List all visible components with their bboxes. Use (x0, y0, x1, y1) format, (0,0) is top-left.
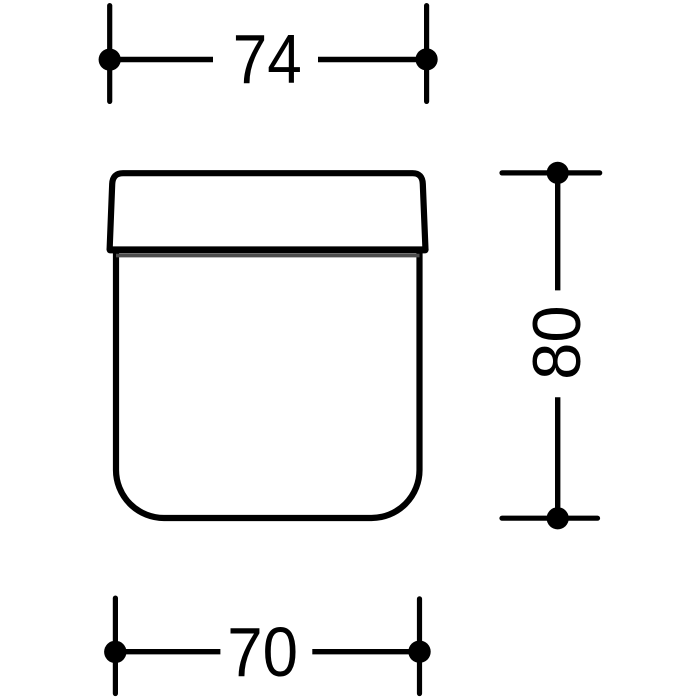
vessel collar outline (110, 173, 426, 250)
right dimension line upper segment (555, 173, 560, 291)
right dimension line lower segment (555, 397, 560, 518)
bottom dimension extension line right (417, 599, 422, 694)
top dimension extension line right (424, 6, 429, 102)
svg-text:74: 74 (233, 20, 302, 98)
bottom dimension extension line left (113, 598, 118, 693)
bottom dimension dot right (408, 641, 430, 663)
bottom dimension line left segment (115, 649, 220, 654)
right dimension dot top (547, 162, 569, 184)
vessel collar bottom edge (110, 246, 425, 253)
right dimension extension line bottom (502, 516, 598, 521)
vessel body outline (116, 249, 420, 518)
vessel lip line (116, 254, 420, 258)
bottom dimension dot left (104, 641, 126, 663)
bottom dimension line right segment (312, 649, 419, 654)
top dimension dot right (416, 48, 438, 70)
top dimension line right segment (318, 57, 427, 62)
top dimension line left segment (110, 57, 213, 62)
right dimension extension line top (502, 170, 600, 175)
top dimension extension line left (107, 6, 112, 102)
svg-text:70: 70 (227, 615, 298, 692)
top dimension dot left (99, 49, 121, 71)
svg-text:80: 80 (520, 305, 595, 380)
right dimension dot bottom (547, 507, 569, 529)
